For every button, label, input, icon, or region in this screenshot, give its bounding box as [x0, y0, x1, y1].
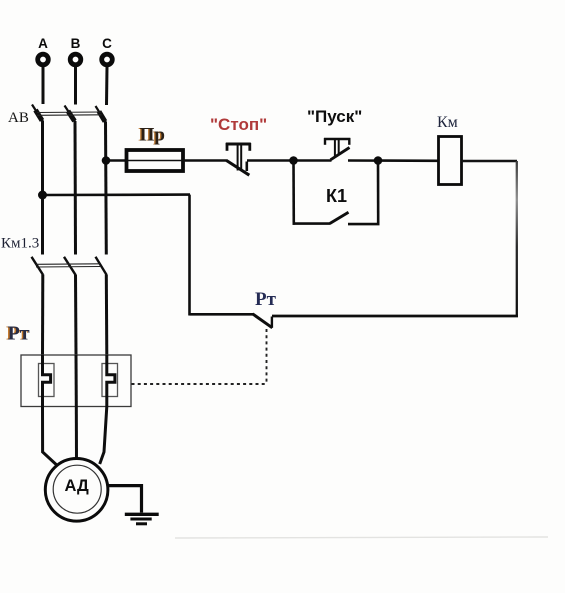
contactor Km1.3 pole B blade — [64, 257, 76, 275]
svg-text:В: В — [71, 36, 81, 51]
node A terminal — [35, 52, 50, 67]
contact K1 (NO) blade — [330, 212, 349, 223]
wire stop to start — [247, 159, 332, 162]
wire phase B mid — [74, 121, 78, 255]
wire phase A to motor — [43, 407, 58, 467]
contactor Km1.3 linkage bar (double line) — [36, 264, 100, 267]
wire coil to right corner — [462, 160, 518, 162]
node B terminal — [68, 52, 83, 67]
pushbutton Stop (NC) — [226, 143, 251, 175]
svg-text:Рт: Рт — [255, 289, 277, 310]
wire K1 branch left vertical — [292, 161, 295, 225]
thermal element phase C outline — [102, 364, 118, 397]
node junction on phase A — [38, 191, 47, 200]
motor AD inner circle — [53, 465, 101, 513]
wire K1 branch bottom right — [348, 223, 380, 226]
wire K1 branch bottom left — [293, 222, 331, 225]
wire control bottom left — [190, 313, 254, 316]
svg-text:Км: Км — [437, 114, 458, 131]
node junction right of start — [374, 156, 383, 165]
wire phase C to motor — [100, 407, 107, 465]
wire control bottom right — [272, 315, 518, 318]
wire control left vertical — [188, 195, 191, 316]
wire start to coil — [348, 159, 439, 162]
wire control tap from phase A — [43, 193, 191, 196]
wire C tap to fuse — [106, 159, 127, 161]
contactor Km1.3 pole A blade — [32, 257, 44, 275]
faint scan artifact line — [175, 537, 548, 538]
svg-text:АВ: АВ — [8, 110, 29, 126]
wire right vertical — [516, 161, 518, 317]
breaker AB pole C blade — [96, 106, 106, 122]
wire phase B lower — [74, 275, 78, 356]
svg-text:Пр: Пр — [140, 124, 165, 145]
fuse Pr body — [127, 150, 184, 171]
wire phase A upper — [42, 67, 45, 104]
wire phase B through box — [75, 355, 78, 407]
svg-text:"Стоп": "Стоп" — [210, 115, 267, 134]
fuse Pr centerline — [128, 160, 182, 162]
svg-text:К1: К1 — [326, 186, 347, 206]
wire phase A lower — [41, 275, 44, 356]
label Pr — [138, 124, 165, 145]
node fuse tap junction on phase C — [102, 156, 111, 165]
svg-text:А: А — [38, 36, 48, 51]
breaker AB linkage bar (double line) — [37, 112, 102, 115]
node junction left of start — [289, 156, 298, 165]
ground symbol — [125, 514, 159, 524]
wire fuse to stop button — [183, 159, 228, 162]
thermal relay RT box — [21, 355, 131, 407]
thermal element phase A heater jog — [43, 355, 51, 407]
dashed linkage vertical from Rt contact — [266, 329, 268, 384]
svg-text:АД: АД — [64, 477, 89, 495]
contactor Km1.3 pole C blade — [96, 257, 107, 275]
motor AD outer circle — [45, 459, 108, 522]
wire K1 branch right vertical — [377, 161, 380, 225]
svg-text:С: С — [102, 36, 112, 51]
wire phase C lower — [105, 275, 109, 356]
thermal element phase C heater jog — [107, 355, 115, 407]
breaker AB pole B blade — [65, 106, 76, 122]
wire motor to ground — [108, 486, 142, 513]
breaker AB pole A blade — [32, 105, 43, 122]
thermal element phase A outline — [39, 364, 55, 397]
svg-text:"Пуск": "Пуск" — [307, 107, 362, 126]
svg-text:Рт: Рт — [8, 322, 30, 344]
wire phase B upper — [74, 67, 77, 105]
wire phase C upper — [105, 67, 109, 105]
contact Rt thermal (NC) — [253, 314, 273, 328]
coil Km — [439, 137, 462, 185]
svg-text:Км1.3: Км1.3 — [1, 236, 39, 252]
wire phase B to motor — [75, 407, 78, 460]
dashed linkage horizontal to thermal box — [132, 383, 268, 385]
node C terminal — [99, 52, 114, 67]
wire phase C mid — [104, 122, 108, 255]
wire phase A mid — [41, 121, 44, 255]
label Rt relay — [6, 322, 30, 344]
pushbutton Start (NO) — [324, 138, 350, 160]
